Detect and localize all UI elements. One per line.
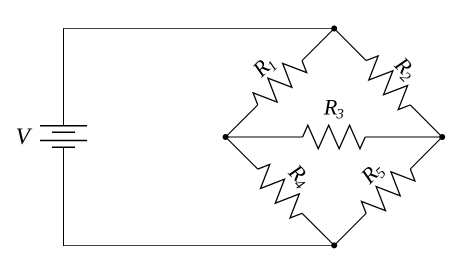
wire: left rail upper segment (63, 28, 65, 126)
wire: bottom rail from battery to bottom node (64, 244, 335, 246)
wire: left rail lower segment (63, 147, 65, 246)
wire: top rail from battery to top node (64, 28, 335, 30)
svg-text:R4: R4 (281, 158, 316, 193)
resistor R2 zigzag (366, 56, 410, 110)
node bottom junction dot (331, 242, 337, 248)
node right junction dot (439, 134, 445, 140)
node left junction dot (223, 134, 229, 140)
svg-text:V: V (16, 124, 33, 150)
resistor R2 lead wires (334, 29, 442, 138)
node top junction dot (331, 26, 337, 32)
resistor R3 zigzag (303, 125, 366, 149)
resistor R3 lead wires (226, 136, 443, 138)
resistor R4 zigzag (258, 164, 302, 218)
svg-text:R5: R5 (355, 156, 390, 191)
resistor R1 zigzag (253, 61, 307, 105)
svg-text:R2: R2 (387, 51, 422, 86)
resistor R5 lead wires (334, 137, 442, 245)
resistor R5 zigzag (361, 169, 415, 213)
resistor R4 lead wires (226, 137, 335, 245)
svg-text:R1: R1 (247, 50, 282, 85)
resistor R1 lead wires (226, 29, 335, 138)
battery V plates (40, 126, 87, 148)
svg-text:R3: R3 (323, 95, 344, 123)
